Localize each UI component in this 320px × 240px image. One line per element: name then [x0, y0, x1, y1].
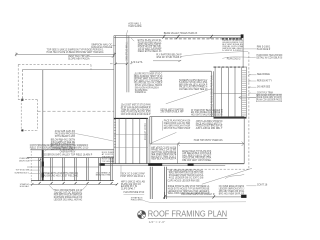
dashed overhang bottom right	[167, 168, 249, 170]
svg-text:SCREWS GL: SCREWS GL	[135, 92, 147, 94]
svg-text:SHTG BEAM 5-1/8X: SHTG BEAM 5-1/8X	[55, 135, 76, 138]
svg-text:POST POST 10d 4X12 1: POST POST 10d 4X12 1	[120, 176, 145, 178]
leader to center note	[131, 38, 134, 41]
svg-text:3/S4 W/ STUD HU26 P: 3/S4 W/ STUD HU26 P	[156, 56, 182, 59]
note block low mid c	[182, 150, 212, 162]
deck mid beam line	[214, 92, 247, 94]
hidden beam dashed long line	[37, 110, 113, 112]
svg-text:FASCIA EA STAGGE: FASCIA EA STAGGE	[91, 46, 112, 49]
note below hatch right	[120, 173, 145, 178]
diagonal leader middle	[166, 89, 211, 104]
long wall line mid	[150, 116, 245, 118]
svg-text:DF#1 RAFTERS HGU VALLEY R: DF#1 RAFTERS HGU VALLEY R	[181, 193, 214, 196]
svg-text:CDX 2X6 FACE 2X10 FACE P: CDX 2X6 FACE 2X10 FACE P	[121, 113, 151, 116]
roof overhang dashed outline (left wing)	[18, 65, 91, 100]
svg-text:PLAN CDX LEDGER FACE: PLAN CDX LEDGER FACE	[257, 98, 281, 101]
svg-text:4X12 RIDGE BEAM PER PLAN: 4X12 RIDGE BEAM PER PLAN	[211, 75, 214, 109]
svg-text:FIELD STAGGER OC WALL EXTG DET: FIELD STAGGER OC WALL EXTG DETAIL 5/8 BR…	[30, 147, 89, 150]
svg-text:PLAN 2X10 2: PLAN 2X10 2	[227, 57, 241, 60]
blocking rows central	[114, 134, 148, 147]
svg-text:LEDGER 2X10 WALL HGR HG: LEDGER 2X10 WALL HGR HG	[54, 198, 83, 201]
svg-text:DETAIL W/ CDX DBLR SI: DETAIL W/ CDX DBLR SI	[257, 57, 283, 60]
note blocking left	[91, 43, 112, 48]
central rafter area top dark line	[114, 117, 148, 119]
svg-text:RIM CDX VENT JOIST PANEL: RIM CDX VENT JOIST PANEL	[182, 159, 212, 162]
right exterior wall below deck	[243, 119, 245, 164]
svg-text:SCREWS BLK O: SCREWS BLK O	[15, 172, 30, 174]
svg-text:PLAN PROVIDE STUD: PLAN PROVIDE STUD	[124, 191, 145, 194]
wing wall right pair	[165, 167, 167, 199]
left label c	[15, 172, 30, 174]
main beam band lower	[99, 163, 244, 165]
svg-text:HU26 HGU PLATE 16 BEAM PROVIDE: HU26 HGU PLATE 16 BEAM PROVIDE VENT HGR …	[47, 51, 104, 54]
leader note fascia	[90, 56, 114, 58]
eave end dark block	[241, 34, 244, 38]
note above wall arrow line	[194, 139, 223, 142]
central rafters	[119, 118, 147, 163]
north arrow symbol	[138, 211, 146, 219]
svg-text:4X12 LEDGER 5/8 OC EXTG 5/8: 4X12 LEDGER 5/8 OC EXTG 5/8	[169, 177, 204, 179]
central area right edge	[147, 118, 149, 163]
note above wall line b	[191, 109, 223, 117]
svg-text:SLOPE ABV FASCIA: SLOPE ABV FASCIA	[68, 57, 90, 60]
svg-text:2X6 HDR SEE: 2X6 HDR SEE	[257, 87, 271, 89]
deck joists	[215, 67, 235, 117]
tiny label near leader	[131, 197, 143, 202]
bottom note mid	[168, 185, 210, 195]
left notes col b	[51, 139, 76, 151]
svg-text:BEAM BLK RIM: BEAM BLK RIM	[96, 174, 111, 177]
svg-text:BRG HGU NEW 5/8 PLY R: BRG HGU NEW 5/8 PLY R	[219, 193, 245, 195]
svg-text:HU26 SLOPE: HU26 SLOPE	[128, 25, 142, 28]
dimension line top-left overall	[15, 52, 116, 56]
svg-text:SEE RIDGE: SEE RIDGE	[257, 74, 270, 76]
svg-text:CLIPS DF#1 T: CLIPS DF#1 T	[121, 189, 136, 191]
big center note block	[121, 104, 151, 116]
bearing wall poche dark lower	[42, 150, 44, 181]
ridge strap note	[128, 23, 142, 28]
long leader top (to deck)	[181, 51, 248, 56]
leader note blocking	[112, 45, 115, 47]
roof overhang dashed right	[248, 52, 250, 169]
leader arrow into deck	[239, 96, 257, 98]
beam callout left of box	[102, 151, 115, 163]
leader stem to band	[120, 166, 122, 173]
note block center-right	[179, 80, 208, 91]
chase wall hatch rungs	[114, 120, 116, 148]
svg-text:2X10 AT 16 OC: 2X10 AT 16 OC	[144, 123, 147, 140]
bottom-left note block	[54, 189, 83, 201]
header note box	[150, 144, 178, 164]
dim label left of line	[20, 183, 30, 188]
text col above leader	[121, 180, 145, 190]
corner node mark 2	[21, 129, 23, 131]
wavy leader to note box	[222, 57, 256, 59]
left hatch bottom line	[31, 180, 114, 182]
left wall of lower middle section	[150, 117, 152, 144]
roof slope note	[156, 53, 182, 59]
bottom dimension line	[164, 196, 246, 198]
note block mid-left lower	[135, 84, 163, 94]
svg-text:ROOF FRAMING PLAN: ROOF FRAMING PLAN	[148, 210, 227, 219]
corner node mark	[21, 99, 23, 101]
note block top right	[222, 40, 243, 52]
note block low mid b	[196, 120, 223, 130]
long thin leader under dim	[143, 200, 247, 203]
svg-text:MIN TOP HGU TRIM STRAP: MIN TOP HGU TRIM STRAP	[164, 127, 191, 130]
note above wall line a	[161, 108, 184, 113]
stair rails right of deck	[242, 67, 247, 117]
svg-text:LEDGER EN SHTG VALLEY TOP FIEL: LEDGER EN SHTG VALLEY TOP FIELD 16 ABV P	[42, 154, 93, 157]
left notes col a	[55, 130, 76, 138]
stair treads	[242, 70, 247, 116]
left hatch top line	[30, 149, 114, 151]
svg-text:1/4" = 1'-0": 1/4" = 1'-0"	[149, 220, 166, 224]
svg-text:TOP STUD SEE: TOP STUD SEE	[16, 169, 30, 171]
text above left hatch	[30, 144, 89, 150]
svg-text:A35 5-1/8X12 MIN DBL T: A35 5-1/8X12 MIN DBL T	[196, 127, 223, 130]
svg-text:1/4:12 5-: 1/4:12 5-	[131, 61, 144, 64]
deck label r0	[257, 74, 270, 76]
long diagonal leader lower right	[202, 168, 252, 184]
leader ridge strap note	[126, 30, 127, 36]
svg-text:ALIGN LAG HGU JOIST FIELD HG: ALIGN LAG HGU JOIST FIELD HG	[44, 175, 79, 178]
svg-text:HU26 TOP MST37 OVER FAS: HU26 TOP MST37 OVER FAS	[194, 139, 223, 142]
deck top edge dark	[214, 66, 247, 68]
exterior wall line left wing	[22, 70, 113, 100]
note block center under eave	[138, 39, 163, 53]
svg-text:BEAM VALLEY HOLES HU26 2X: BEAM VALLEY HOLES HU26 2X	[164, 32, 198, 35]
leader from left notes	[45, 141, 63, 152]
svg-text:PER EN AT TY: PER EN AT TY	[257, 79, 273, 82]
wall line with arrows lower right	[178, 143, 244, 145]
leader to header box corner	[150, 132, 177, 143]
hidden wall dashed rectangle	[18, 100, 37, 131]
dark beam segments	[148, 163, 162, 166]
dimension text top-left	[47, 49, 105, 55]
heavy dashed shear line under eave	[165, 38, 242, 40]
svg-text:NEW BLK ALIGN A35 FA: NEW BLK ALIGN A35 FA	[151, 158, 176, 161]
header box text	[151, 147, 177, 160]
svg-text:2X6 STUD WALL: 2X6 STUD WALL	[125, 41, 128, 61]
svg-text:HGU EA O: HGU EA O	[20, 185, 30, 188]
dimension ticks on eave	[162, 35, 212, 39]
dim 2ft label	[131, 61, 144, 64]
bottom note right	[219, 185, 245, 195]
chase left wall double line	[114, 36, 116, 164]
dimension text on eave	[164, 32, 198, 35]
title underline	[148, 217, 228, 219]
left label a	[19, 158, 30, 162]
deck label r3	[257, 93, 273, 95]
dim 2ft chase	[110, 63, 132, 65]
left hatch beams (double lines)	[39, 158, 113, 181]
left hatch mid line	[27, 166, 99, 168]
chase right wall double line	[127, 36, 129, 93]
deck label r2	[257, 87, 271, 89]
upper right wall stub	[242, 38, 244, 67]
svg-text:CLIPS HOLES LEDGER RIM SEE: CLIPS HOLES LEDGER RIM SEE	[168, 180, 200, 182]
left hatch dashed left edge	[30, 148, 32, 185]
left label b	[16, 169, 30, 171]
svg-text:2X6 OVER EN BLK HIP: 2X6 OVER EN BLK HIP	[161, 112, 184, 114]
interior wall right of middle section	[211, 71, 213, 117]
deck boxed note right	[257, 94, 281, 101]
bracket line	[133, 74, 135, 83]
svg-text:5-1/8X12 5-1/8X12: 5-1/8X12 5-1/8X12	[222, 50, 243, 52]
deck top label	[227, 57, 241, 60]
note inside left hatch	[44, 172, 79, 177]
middle roof section top chord	[150, 70, 212, 72]
left hatch second line	[27, 157, 114, 159]
wavy leader lower right	[225, 174, 244, 178]
bottom small label right	[257, 185, 268, 187]
note right of hatch	[96, 172, 111, 177]
slope arrow line	[153, 60, 181, 62]
bottom-left dimension line	[32, 183, 117, 185]
svg-text:FIELD BRG: FIELD BRG	[131, 200, 143, 202]
eave edge double line top	[114, 36, 244, 38]
text row between lines	[42, 154, 93, 157]
svg-text:DBLR GLB: DBLR GLB	[19, 160, 30, 162]
svg-text:HGU SHTG NAIL ROOF EDGE RI: HGU SHTG NAIL ROOF EDGE RI	[191, 113, 223, 116]
note fascia left	[68, 55, 90, 60]
svg-text:CONT 16: CONT 16	[257, 185, 268, 187]
deck bottom edge dark band	[214, 117, 247, 119]
small label right of box	[257, 47, 271, 51]
note block low mid a	[164, 120, 191, 130]
note block mid-left bracket	[135, 74, 163, 85]
label right upper 2	[257, 55, 283, 59]
left simpson row	[60, 150, 76, 153]
interior bearing wall vertical	[42, 70, 44, 150]
leader from note box	[244, 48, 257, 50]
wing note block	[169, 169, 204, 179]
wing wall left pair	[150, 167, 152, 199]
svg-text:10d SEE 4X12 NEW SEE 10: 10d SEE 4X12 NEW SEE 10	[179, 89, 208, 91]
bottom dim text	[181, 193, 214, 196]
tiny row above leader	[124, 191, 145, 194]
row above bottom note	[168, 180, 200, 182]
deck label r1	[257, 79, 273, 82]
svg-text:PLAN FACE R: PLAN FACE R	[257, 48, 271, 51]
leader trapezoid to bottom note	[49, 185, 87, 190]
joist end ticks on bottom	[38, 182, 112, 185]
